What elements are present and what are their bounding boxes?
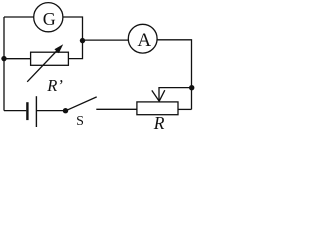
svg-text:G: G <box>43 9 56 29</box>
rheostat R' body <box>31 52 69 65</box>
wire: battery right plate to switch pivot <box>37 110 66 112</box>
battery short thick plate <box>26 102 28 120</box>
wire: ammeter right, corner, right rail down <box>157 40 191 110</box>
potentiometer wiper arrowhead <box>152 90 165 101</box>
switch S pivot dot <box>63 108 68 113</box>
wire: left node to rheostat R' <box>4 58 31 60</box>
battery long thin plate <box>35 96 37 127</box>
svg-text:R’: R’ <box>46 76 63 95</box>
wire: node to ammeter <box>83 39 129 41</box>
potentiometer R body <box>137 102 178 115</box>
node: G/R' junction <box>80 38 85 43</box>
wire: rheostat R' right to node above <box>68 41 82 59</box>
wire: galvanometer right to top-right corner, down to node <box>63 17 83 41</box>
wire: switch contact to R box left side <box>96 108 137 110</box>
wire: left rail <box>3 17 5 111</box>
galvanometer U: G <box>34 3 63 32</box>
wire: top-left horizontal to galvanometer <box>4 16 34 18</box>
wire: potentiometer wiper to right-rail node <box>159 88 192 101</box>
svg-text:A: A <box>137 30 151 51</box>
rheostat R' arrow <box>27 49 59 82</box>
svg-text:S: S <box>76 114 84 129</box>
switch S blade <box>66 97 97 111</box>
wire: bottom-left corner to battery <box>4 110 26 112</box>
node: left rail junction <box>1 56 6 61</box>
wire: right rail to R box right side <box>178 108 192 110</box>
svg-text:R: R <box>153 113 165 131</box>
ammeter U: A <box>128 24 157 53</box>
node: wiper junction on right rail <box>189 85 194 90</box>
